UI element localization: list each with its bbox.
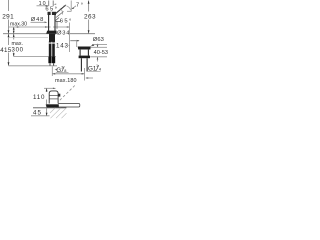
wire d63 dim (92, 43, 107, 45)
label diameter34 (57, 29, 70, 35)
wire lever tip vertical ref (70, 1, 72, 12)
wire ext lines for 10 (48, 1, 50, 7)
node 263 bottom arrow (88, 30, 90, 33)
node max300 bottom arrow (13, 53, 15, 56)
wire 40-53 dim verticals (97, 44, 99, 48)
spout horizontal (58, 104, 80, 108)
deck hatch (50, 108, 55, 113)
wire 110 dim line (46, 88, 48, 92)
hose connectors (48, 57, 51, 63)
wire max300 dimension line (13, 34, 15, 40)
label 143 (56, 42, 69, 48)
wire 45 ref line (31, 115, 50, 117)
lever closed (dark cap on body top) (48, 12, 57, 15)
wire 263 dimension line (88, 1, 90, 12)
node 415 top arrow (8, 34, 10, 37)
base flange dark (47, 104, 59, 107)
wire 10 dim line (37, 5, 48, 7)
pop-up waste locknut (79, 56, 90, 59)
dashed raised lever (60, 85, 76, 100)
pop-up waste flange (78, 47, 91, 50)
node max300 top arrow (13, 34, 15, 37)
escutcheon flange dark (46, 31, 57, 34)
label 65deg lower with angle mark (55, 18, 60, 22)
pop-up waste body (79, 50, 81, 56)
wire max180 dim line (52, 73, 84, 75)
lever raised diagonal (55, 5, 66, 14)
svg-text:65°: 65° (45, 7, 57, 13)
angle arc 65 top (60, 9, 63, 15)
node 291 bottom arrow (8, 30, 10, 33)
wire 291 dimension line (8, 0, 10, 11)
svg-text:300: 300 (12, 48, 24, 54)
node small arrow on ref line (17, 26, 20, 28)
wire underline of d48 with arrow to body (31, 21, 45, 23)
wire max180 left extension (51, 67, 53, 77)
wire max30 dimension (13, 27, 15, 34)
pop-up waste tailpipe (80, 58, 82, 71)
faucet body (top view) (48, 13, 50, 32)
wire spout-height reference line y27 (9, 26, 70, 28)
shank and mounting nut below deck (49, 34, 55, 42)
wire 415 reference line (9, 65, 58, 67)
svg-text:Ø63: Ø63 (93, 37, 104, 43)
leader G114 (86, 77, 93, 79)
svg-text:110: 110 (33, 94, 45, 101)
svg-text:415: 415 (0, 47, 12, 54)
svg-text:max.: max. (12, 41, 24, 47)
node 263 top arrow (88, 1, 90, 4)
wire 415 dimension line (8, 34, 10, 45)
underline G114 (88, 70, 101, 72)
svg-text:143: 143 (56, 43, 69, 50)
wire 40-53 ext lines (91, 46, 107, 48)
svg-text:max.180: max.180 (55, 78, 77, 84)
wire deck line (3, 33, 95, 35)
leader arrow d34 (54, 33, 57, 34)
svg-text:40-53: 40-53 (94, 50, 108, 56)
wire waste centerline ext (84, 68, 86, 81)
wire 143 dim line (56, 44, 70, 46)
label 40-53 (93, 48, 108, 54)
leader arrow G38 (56, 72, 69, 74)
svg-text:263: 263 (84, 13, 96, 20)
wire 143 right extension line (69, 23, 71, 53)
hoses (49, 42, 52, 64)
faucet body side view (49, 91, 58, 104)
svg-text:Ø34: Ø34 (57, 31, 70, 37)
node 415 bottom arrow (8, 62, 10, 65)
wire top ref line (44, 87, 56, 89)
wire 300 reference line (14, 56, 56, 58)
deck line bottom view (33, 107, 67, 109)
pop-up waste rod (70, 40, 79, 42)
svg-text:291: 291 (2, 13, 14, 20)
lever hub (58, 94, 60, 97)
leader 7deg (72, 6, 76, 9)
